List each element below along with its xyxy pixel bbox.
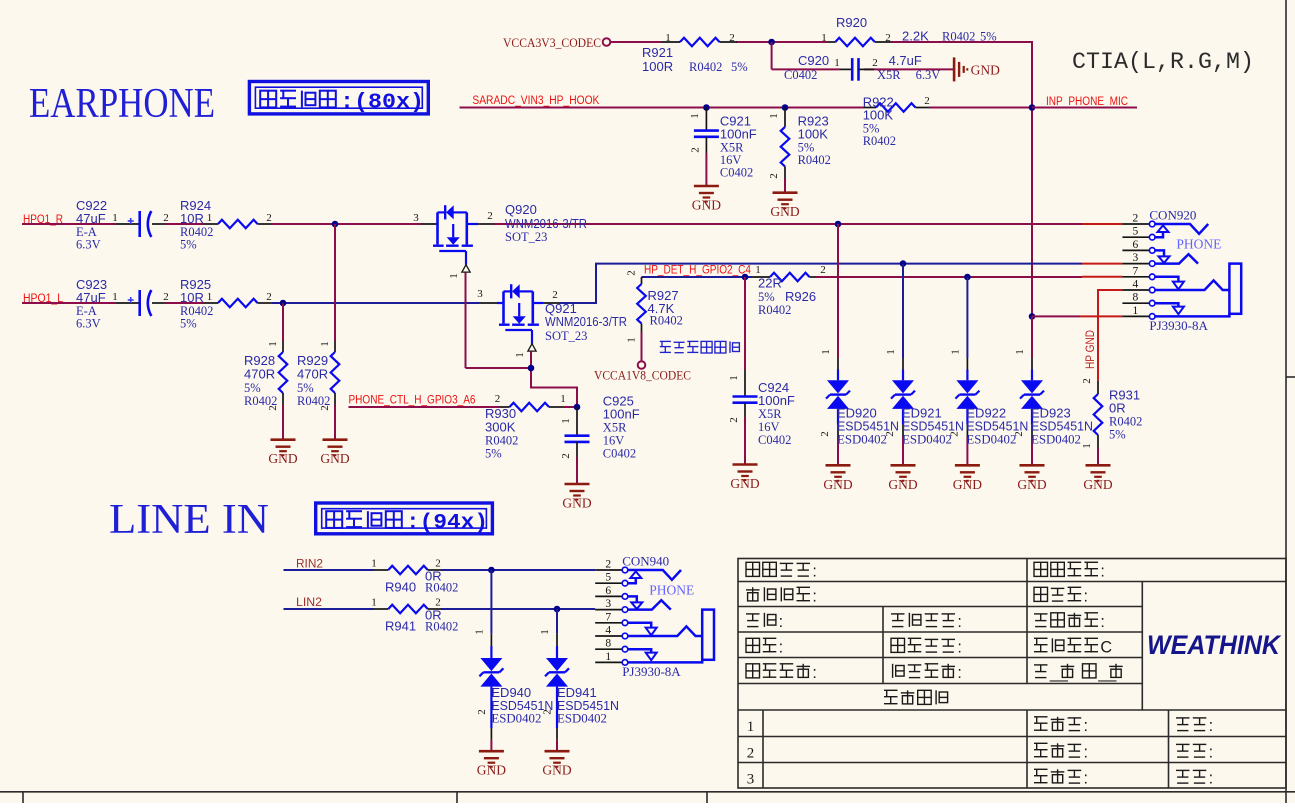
svg-text:2: 2 [885, 32, 891, 44]
svg-text:100nF: 100nF [720, 127, 757, 142]
svg-text:PHONE_CTL_H_GPIO3_A6: PHONE_CTL_H_GPIO3_A6 [349, 395, 476, 407]
svg-text:10R: 10R [180, 290, 204, 305]
svg-text:2: 2 [605, 559, 611, 571]
svg-text:2: 2 [1081, 378, 1093, 384]
svg-text:2: 2 [266, 212, 272, 224]
svg-text:VCCA1V8_CODEC: VCCA1V8_CODEC [594, 368, 691, 383]
wire MIC net to pin1 [1032, 315, 1122, 317]
svg-text:1: 1 [514, 352, 526, 358]
svg-text::: : [957, 664, 962, 682]
svg-text::: : [1100, 563, 1105, 581]
svg-text:GND: GND [888, 477, 917, 492]
node RIN2 to ED940 [488, 567, 495, 574]
svg-text:470R: 470R [297, 367, 328, 382]
svg-text:GND: GND [562, 496, 591, 511]
svg-text:C0402: C0402 [603, 447, 636, 461]
svg-text:1: 1 [885, 349, 897, 355]
svg-text:GND: GND [823, 477, 852, 492]
ground for C924 [730, 465, 759, 492]
resistor R925 [180, 277, 272, 331]
ground for ED920 [823, 465, 852, 492]
svg-text:R0402: R0402 [650, 314, 683, 328]
svg-text::: : [779, 613, 784, 631]
ground for R929 [320, 440, 349, 467]
svg-text:INP_PHONE_MIC: INP_PHONE_MIC [1046, 96, 1128, 108]
ground for ED922 [953, 465, 982, 492]
net label LIN2 [284, 597, 375, 609]
svg-text:4: 4 [605, 625, 611, 637]
svg-text:2: 2 [820, 264, 826, 276]
svg-text:2: 2 [747, 746, 755, 762]
svg-text:GND: GND [542, 763, 571, 778]
svg-text:ESD0402: ESD0402 [491, 712, 541, 726]
title block text row1 [746, 562, 1105, 580]
node HPO1_R to R929 [332, 221, 339, 228]
svg-text:X5R: X5R [603, 421, 627, 435]
svg-text:100K: 100K [798, 127, 829, 142]
svg-text:R0402: R0402 [244, 394, 277, 408]
svg-text:Q920: Q920 [505, 202, 537, 217]
node LIN2 to ED941 [554, 606, 561, 613]
svg-text:3: 3 [747, 772, 755, 788]
node HPO1_L to R928 [280, 300, 287, 307]
node R930 C925 junction [574, 404, 581, 411]
ground for ED921 [888, 465, 917, 492]
svg-text:1: 1 [755, 264, 761, 276]
svg-text:GND: GND [320, 451, 349, 466]
svg-text:6: 6 [605, 585, 611, 597]
svg-text:R926: R926 [785, 289, 816, 304]
node HP_DET to ED922 [964, 274, 971, 281]
node HPO1_R to ED920 [835, 221, 842, 228]
designator code box (94x) [316, 503, 493, 535]
svg-text::: : [1209, 744, 1214, 762]
svg-text:R0402: R0402 [942, 30, 975, 44]
svg-text:4.7uF: 4.7uF [889, 53, 922, 68]
esd diode ED922 [948, 277, 1028, 465]
svg-text:HP GND: HP GND [1083, 330, 1097, 369]
port VCCA1V8_CODEC [594, 361, 691, 382]
wire HPO1_L row [22, 302, 479, 304]
svg-text:PJ3930-8A: PJ3930-8A [622, 664, 681, 679]
resistor R927 [626, 270, 683, 361]
svg-text:5%: 5% [485, 447, 502, 461]
svg-text:1: 1 [1014, 349, 1026, 355]
title block rows 1 2 3 [747, 719, 755, 788]
wire HP_GND pin4 [1098, 290, 1122, 381]
svg-text:ESD0402: ESD0402 [557, 712, 607, 726]
svg-text::: : [957, 639, 962, 657]
svg-text:10R: 10R [180, 211, 204, 226]
svg-text:100nF: 100nF [603, 407, 640, 422]
svg-text:RIN2: RIN2 [296, 559, 323, 571]
capacitor C921 [689, 108, 757, 187]
resistor R930 [485, 393, 577, 461]
ground for C925 [562, 484, 591, 511]
node MIC net to connector [1029, 313, 1036, 320]
svg-text::: : [812, 563, 817, 581]
resistor R926 [752, 264, 826, 317]
wire HPO1_R row [22, 223, 1122, 225]
node R923 junction [782, 104, 789, 111]
svg-text:1: 1 [834, 57, 840, 69]
esd diode ED923 [1013, 316, 1093, 465]
svg-text:1: 1 [821, 32, 827, 44]
node rail junction [768, 39, 775, 46]
svg-text:R0402: R0402 [689, 60, 722, 74]
port VCCA3V3_CODEC [503, 35, 610, 50]
svg-text:1: 1 [820, 349, 832, 355]
net label PHONE_CTL_H_GPIO3_A6 [349, 395, 501, 408]
esd diode ED941 [539, 609, 619, 751]
resistor R922 [863, 95, 930, 149]
svg-text:2: 2 [884, 431, 896, 437]
svg-text::: : [957, 613, 962, 631]
svg-text:16V: 16V [603, 434, 625, 448]
svg-text:R920: R920 [836, 15, 867, 30]
node gate junction [528, 365, 535, 372]
svg-text:PHONE: PHONE [649, 582, 694, 597]
svg-text:1: 1 [207, 291, 213, 303]
svg-text:2: 2 [1013, 431, 1025, 437]
svg-text:C920: C920 [798, 53, 829, 68]
svg-text:1: 1 [747, 719, 755, 735]
svg-text:VCCA3V3_CODEC: VCCA3V3_CODEC [503, 35, 601, 50]
svg-text:GND: GND [477, 763, 506, 778]
svg-text:1: 1 [319, 341, 331, 347]
svg-text:5%: 5% [297, 381, 314, 395]
ground for R923 [770, 193, 799, 220]
svg-text:2: 2 [768, 173, 780, 179]
svg-text:C0402: C0402 [720, 166, 753, 180]
ground for ED940 [477, 751, 506, 778]
svg-text:ESD5451N: ESD5451N [1031, 419, 1093, 434]
svg-text:47uF: 47uF [76, 211, 106, 226]
svg-text::: : [1083, 770, 1088, 788]
node HP_DET to C924 [742, 274, 749, 281]
svg-text:1: 1 [626, 337, 638, 343]
svg-text:3: 3 [413, 212, 419, 224]
svg-text:PJ3930-8A: PJ3930-8A [1149, 318, 1208, 333]
svg-text:CON940: CON940 [622, 553, 669, 568]
svg-text:1: 1 [448, 273, 460, 279]
transistor Q920 [413, 202, 587, 279]
svg-text:3: 3 [605, 598, 611, 610]
svg-text:6.3V: 6.3V [76, 238, 101, 252]
svg-text:47uF: 47uF [76, 290, 106, 305]
svg-text:1: 1 [267, 341, 279, 347]
svg-text:GND: GND [1017, 477, 1046, 492]
svg-text:4: 4 [1133, 279, 1139, 291]
svg-text:1: 1 [207, 212, 213, 224]
svg-text:2: 2 [552, 289, 558, 301]
resistor R928 [244, 303, 287, 440]
svg-text:2: 2 [729, 32, 735, 44]
title block text row2 [746, 587, 1088, 605]
svg-text:CON920: CON920 [1149, 207, 1196, 222]
svg-text:GND: GND [692, 198, 721, 213]
svg-text:300K: 300K [485, 420, 516, 435]
svg-text:6.3V: 6.3V [916, 68, 941, 82]
svg-text:1: 1 [112, 212, 118, 224]
svg-text:2: 2 [626, 270, 638, 276]
svg-text:2: 2 [728, 417, 740, 423]
svg-text:EARPHONE: EARPHONE [29, 81, 215, 127]
svg-text:R0402: R0402 [425, 581, 458, 595]
svg-text:ESD0402: ESD0402 [1031, 433, 1081, 447]
svg-text:2: 2 [690, 147, 702, 153]
svg-text:6: 6 [1133, 239, 1139, 251]
svg-text:R940: R940 [385, 580, 416, 595]
svg-text::: : [1209, 717, 1214, 735]
svg-text:8: 8 [1133, 292, 1139, 304]
svg-text:CTIA(L,R.G,M): CTIA(L,R.G,M) [1072, 49, 1254, 76]
svg-text:5%: 5% [180, 317, 197, 331]
svg-text:100nF: 100nF [758, 393, 795, 408]
svg-text:6.3V: 6.3V [76, 317, 101, 331]
title block text row5 [746, 664, 1123, 682]
wire RIN2 to connector [441, 569, 595, 571]
title block modifier fields [1034, 717, 1088, 788]
svg-text:3: 3 [1133, 252, 1139, 264]
resistor R924 [180, 198, 272, 252]
svg-text::(80x): :(80x) [340, 92, 424, 115]
svg-text:1: 1 [539, 629, 551, 635]
svg-text::: : [1209, 770, 1214, 788]
svg-text:SOT_23: SOT_23 [505, 230, 547, 244]
designator code box (80x) [249, 82, 428, 115]
svg-text:100R: 100R [642, 59, 673, 74]
svg-text:1: 1 [949, 349, 961, 355]
svg-text:5%: 5% [731, 60, 748, 74]
title block table [738, 559, 1286, 789]
svg-text:2: 2 [476, 709, 488, 715]
svg-text:C: C [1100, 639, 1112, 657]
wire C920 branch [772, 42, 954, 69]
svg-text:R941: R941 [385, 619, 416, 634]
capacitor C920 [784, 53, 940, 82]
svg-text:SARADC_VIN3_HP_HOOK: SARADC_VIN3_HP_HOOK [472, 95, 599, 107]
svg-text:5%: 5% [244, 381, 261, 395]
svg-text:1: 1 [768, 113, 780, 119]
svg-text:5%: 5% [980, 30, 997, 44]
capacitor C923 [76, 277, 169, 331]
svg-text:R921: R921 [642, 45, 673, 60]
svg-text:LIN2: LIN2 [296, 597, 322, 609]
svg-text:1: 1 [371, 558, 377, 570]
svg-text:R0402: R0402 [297, 394, 330, 408]
svg-text:R0402: R0402 [425, 620, 458, 634]
svg-text:SOT_23: SOT_23 [545, 329, 587, 343]
svg-text::(94x): :(94x) [406, 512, 488, 535]
svg-text:22R: 22R [758, 276, 782, 291]
svg-text:2: 2 [924, 95, 930, 107]
svg-text::: : [812, 664, 817, 682]
svg-text:ESD0402: ESD0402 [902, 433, 952, 447]
svg-text:5%: 5% [758, 290, 775, 304]
svg-text:LINE IN: LINE IN [109, 497, 269, 543]
svg-text:2: 2 [542, 709, 554, 715]
svg-text:2: 2 [819, 431, 831, 437]
ground for R931 [1083, 465, 1112, 492]
svg-text:1: 1 [112, 291, 118, 303]
svg-text:1: 1 [560, 393, 566, 405]
resistor R921 [642, 32, 748, 74]
svg-text:1: 1 [605, 651, 611, 663]
wire VCCA3V3 rail [610, 41, 1033, 43]
esd diode ED921 [884, 264, 964, 466]
resistor R940 [371, 558, 458, 595]
net label RIN2 [284, 559, 375, 571]
connector CON940 with phone jack [595, 553, 714, 679]
capacitor C922 [76, 198, 169, 252]
svg-text:470R: 470R [244, 367, 275, 382]
resistor R923 [768, 108, 831, 193]
esd diode ED940 [473, 570, 553, 751]
svg-text:X5R: X5R [758, 407, 782, 421]
svg-text:7: 7 [605, 611, 611, 623]
transistor Q921 [477, 284, 627, 358]
svg-text:R0402: R0402 [863, 134, 896, 148]
svg-text:GND: GND [1083, 477, 1112, 492]
svg-text:2: 2 [495, 393, 501, 405]
ground for ED941 [542, 751, 571, 778]
svg-text:2: 2 [1133, 213, 1139, 225]
wire SARADC_VIN3_HP_HOOK [460, 107, 1033, 109]
svg-text:3: 3 [477, 288, 483, 300]
svg-text:R0402: R0402 [485, 434, 518, 448]
wire HPO1_L to connector [560, 264, 1122, 303]
svg-text:1: 1 [1133, 305, 1139, 317]
svg-text:2: 2 [163, 291, 169, 303]
svg-text:2: 2 [163, 212, 169, 224]
svg-text:2: 2 [948, 431, 960, 437]
svg-text:1: 1 [1081, 443, 1093, 449]
capacitor C925 [560, 394, 640, 485]
svg-text:ESD5451N: ESD5451N [966, 419, 1028, 434]
ground for ED923 [1017, 465, 1046, 492]
svg-text:5%: 5% [180, 238, 197, 252]
resistor R931 [1081, 378, 1142, 465]
node HPO1_L to ED921 [900, 260, 907, 267]
svg-text:7: 7 [1133, 265, 1139, 277]
svg-text::: : [1083, 717, 1088, 735]
resistor R929 [297, 224, 339, 440]
svg-text:2: 2 [560, 453, 572, 459]
svg-text:1: 1 [689, 113, 701, 119]
svg-text:1: 1 [665, 32, 671, 44]
ground for C921 [692, 186, 721, 213]
wire LIN2 to connector [441, 608, 595, 610]
title block text row4 [746, 638, 1112, 656]
node MIC rail junction [1029, 104, 1036, 111]
svg-text:ESD5451N: ESD5451N [837, 419, 899, 434]
svg-text:R0402: R0402 [798, 153, 831, 167]
svg-text:GND: GND [268, 451, 297, 466]
resistor R941 [371, 597, 458, 634]
svg-text:2.2K: 2.2K [902, 29, 929, 44]
wire gate control net [466, 273, 578, 408]
connector CON920 with phone jack [1122, 207, 1241, 333]
wire MIC net vertical right [1031, 41, 1033, 316]
svg-text:C0402: C0402 [784, 68, 817, 82]
resistor R920 [821, 15, 996, 46]
svg-text:PHONE: PHONE [1176, 236, 1221, 251]
svg-text:ESD0402: ESD0402 [966, 433, 1016, 447]
svg-text:WNM2016-3/TR: WNM2016-3/TR [505, 216, 587, 231]
svg-text:WEATHINK: WEATHINK [1147, 630, 1282, 660]
power ground for C920 [954, 57, 1000, 81]
svg-text:0R: 0R [1109, 401, 1126, 416]
svg-text::: : [779, 639, 784, 657]
svg-text:1: 1 [560, 418, 572, 424]
esd diode ED920 [819, 224, 899, 465]
svg-text:R0402: R0402 [758, 303, 791, 317]
svg-text:GND: GND [971, 62, 1000, 77]
svg-text::: : [812, 588, 817, 606]
svg-text:2: 2 [487, 210, 493, 222]
svg-text:8: 8 [605, 638, 611, 650]
ground for R928 [268, 440, 297, 467]
svg-text:R0402: R0402 [1109, 415, 1142, 429]
svg-text:1: 1 [473, 629, 485, 635]
net label INP_PHONE_MIC [1032, 96, 1137, 108]
svg-text:HP_DET_H_GPIO2_C4: HP_DET_H_GPIO2_C4 [644, 265, 752, 277]
svg-text:WNM2016-3/TR: WNM2016-3/TR [545, 314, 627, 329]
text headset insert note [660, 341, 671, 353]
svg-text:5: 5 [605, 572, 611, 584]
svg-text:16V: 16V [758, 420, 780, 434]
svg-text::: : [1083, 744, 1088, 762]
svg-text:X5R: X5R [877, 68, 901, 82]
svg-text:2: 2 [266, 291, 272, 303]
svg-text:100K: 100K [863, 108, 894, 123]
svg-text:1: 1 [371, 597, 377, 609]
svg-text:5: 5 [1133, 226, 1139, 238]
svg-text:C0402: C0402 [758, 433, 791, 447]
node C921 junction [703, 104, 710, 111]
svg-text:GND: GND [730, 476, 759, 491]
wire HP_DET net [642, 276, 1123, 278]
title block text row3 [746, 613, 1105, 631]
svg-text::: : [1100, 613, 1105, 631]
svg-text::: : [1083, 588, 1088, 606]
svg-text:GND: GND [953, 477, 982, 492]
capacitor C924 [728, 277, 795, 465]
title block date fields [1176, 717, 1213, 788]
svg-text:GND: GND [770, 204, 799, 219]
svg-text:5%: 5% [1109, 428, 1126, 442]
svg-text:ESD0402: ESD0402 [837, 433, 887, 447]
title block text revision record [884, 690, 898, 704]
svg-text:1: 1 [728, 375, 740, 381]
